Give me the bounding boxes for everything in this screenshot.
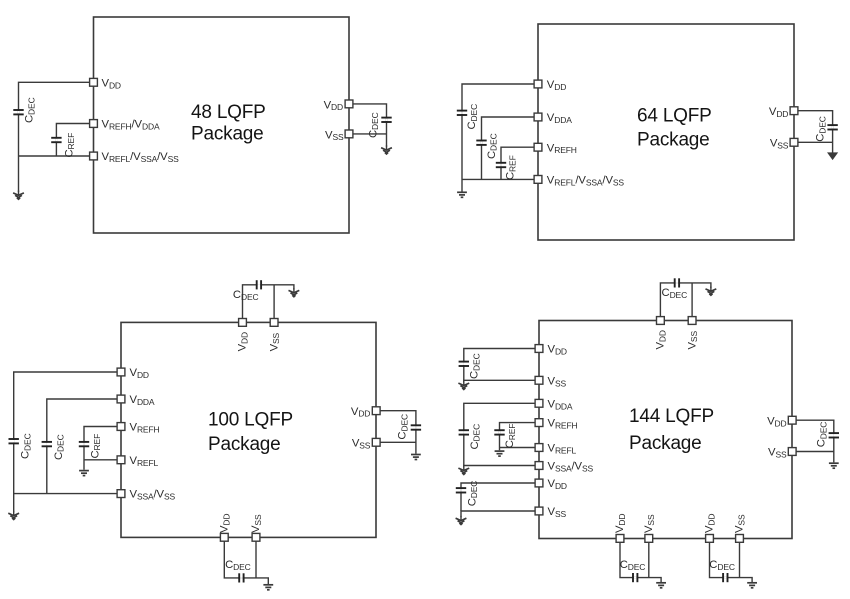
pin VDD a (144) <box>535 345 543 353</box>
wire top VDD to CDEC (144) <box>660 283 711 321</box>
pin VSSA/VSS (144) <box>535 462 543 470</box>
capacitor CREF (100 VREFH) <box>79 434 102 459</box>
wire VDD2 to CDEC (144) <box>461 483 539 511</box>
wire bottom VSS2 drop (144) <box>739 538 741 577</box>
svg-text:CDEC: CDEC <box>233 289 259 302</box>
wire bottom VDD2 to CDEC (144) <box>710 538 753 582</box>
pin VSS right (100) <box>372 438 380 446</box>
ground (48 right) <box>381 145 392 154</box>
svg-text:Package: Package <box>629 433 702 454</box>
svg-text:CREF: CREF <box>504 424 517 449</box>
svg-text:CDEC: CDEC <box>662 287 688 300</box>
pin VSS bottom2 (144) <box>736 535 744 543</box>
package body 64 LQFP <box>538 24 794 240</box>
svg-text:144 LQFP: 144 LQFP <box>629 406 714 427</box>
capacitor CREF (48 left VREFH) <box>51 133 76 158</box>
capacitor CDEC (100 top) <box>233 280 261 302</box>
ground (144 right) <box>829 463 839 468</box>
svg-text:VSS: VSS <box>548 375 567 388</box>
pin VDD right (48) <box>345 100 353 108</box>
capacitor CDEC (100 VDD) <box>9 433 33 459</box>
wire VDD right to CDEC (100) <box>376 411 416 454</box>
svg-text:CDEC: CDEC <box>466 481 479 507</box>
wire VSS right (144) <box>792 451 834 453</box>
pin VSS b (144) <box>535 507 543 515</box>
svg-text:CDEC: CDEC <box>53 434 66 460</box>
svg-text:VDD: VDD <box>769 106 788 119</box>
wire VSSA bus (100) <box>14 493 121 495</box>
wire VREFH to CREF (64) <box>501 147 538 179</box>
capacitor CDEC (144 bottom1) <box>620 559 646 582</box>
svg-text:CDEC: CDEC <box>225 559 251 572</box>
svg-text:VSS: VSS <box>643 514 656 533</box>
svg-text:VDD: VDD <box>130 367 149 380</box>
svg-text:CDEC: CDEC <box>466 104 479 130</box>
wire bottom VSS1 drop (144) <box>648 538 650 577</box>
pin VDD bottom1 (144) <box>616 535 624 543</box>
svg-text:VSS: VSS <box>352 437 371 450</box>
wire VSS1 (144) <box>464 380 539 382</box>
pin VSSA/VSS (100) <box>117 490 125 498</box>
pin VREFL/VSSA/VSS (64) <box>534 176 542 184</box>
ground (144 left2) <box>458 466 469 475</box>
pin VDD bottom2 (144) <box>706 535 714 543</box>
pin VSS right (144) <box>788 448 796 456</box>
capacitor CDEC (64 VDDA) <box>476 133 498 159</box>
svg-text:VDD: VDD <box>102 77 121 90</box>
pin VDD top (144) <box>657 317 665 325</box>
pin VREFH/VDDA (48) <box>90 120 98 128</box>
wire VREFL bus (48) <box>19 155 94 157</box>
wire top VSS drop (144) <box>691 283 693 321</box>
svg-text:VSS: VSS <box>325 129 344 142</box>
wire VREFH to CREF (100) <box>84 427 121 470</box>
ground (64 right) <box>828 153 837 159</box>
ground (100 left) <box>8 511 19 520</box>
svg-text:VREFL/VSSA/VSS: VREFL/VSSA/VSS <box>102 151 180 164</box>
ground (144 left1) <box>458 381 469 390</box>
title 100 LQFP <box>208 409 293 455</box>
svg-text:64 LQFP: 64 LQFP <box>637 105 712 126</box>
svg-text:CDEC: CDEC <box>469 424 482 450</box>
capacitor CDEC (48 left VDD) <box>13 97 36 123</box>
svg-text:48 LQFP: 48 LQFP <box>191 102 266 123</box>
pin VREFH (64) <box>534 143 542 151</box>
wire VDD right to CDEC (144) <box>792 420 834 462</box>
wire bottom VDD to CDEC (100) <box>224 537 268 584</box>
ground (144 CREF) <box>495 451 505 456</box>
svg-text:VSS: VSS <box>770 138 789 151</box>
svg-text:VDD: VDD <box>655 330 668 349</box>
pin VSS right (48) <box>345 130 353 138</box>
pin VDD right (144) <box>788 416 796 424</box>
title 48 LQFP <box>191 102 266 145</box>
wire VSSA bus (144) <box>464 466 539 468</box>
svg-text:CDEC: CDEC <box>486 133 499 159</box>
capacitor CDEC (144 g1) <box>459 353 482 379</box>
svg-text:VDD: VDD <box>548 344 567 357</box>
ground (100 CREF) <box>79 471 89 476</box>
wire VDDA to CDEC (144) <box>464 403 539 465</box>
wire VREFL (144) <box>500 447 540 449</box>
svg-text:VREFH: VREFH <box>547 142 577 155</box>
pin VSS right (64) <box>790 138 798 146</box>
pin VDD bottom (100) <box>220 533 228 541</box>
wire VSS right (48) <box>349 133 387 135</box>
svg-text:VDDA: VDDA <box>548 398 573 411</box>
pin VDD right (64) <box>790 107 798 115</box>
ground (144 left3) <box>456 516 467 525</box>
svg-text:VSS: VSS <box>250 514 263 533</box>
svg-text:VREFL: VREFL <box>548 443 577 456</box>
svg-text:VDD: VDD <box>767 415 786 428</box>
wire VDD right to CDEC (64) <box>794 111 833 153</box>
svg-text:CDEC: CDEC <box>620 559 646 572</box>
svg-text:CDEC: CDEC <box>815 116 828 142</box>
wire VSS right (64) <box>794 141 833 143</box>
wire VDDA to CDEC2 (100) <box>47 399 121 494</box>
ground (144 top) <box>706 287 717 296</box>
svg-text:100 LQFP: 100 LQFP <box>208 409 293 430</box>
svg-text:CDEC: CDEC <box>469 353 482 379</box>
pin VDDA (144) <box>535 399 543 407</box>
svg-text:CREF: CREF <box>505 155 518 180</box>
wire VDD right to CDEC (48) <box>349 104 387 147</box>
svg-text:VDD: VDD <box>324 99 343 112</box>
wire VDD to CDEC1 (100) <box>14 372 121 512</box>
pin VDD top (100) <box>239 319 247 327</box>
wire VDD to CDEC1 (64) <box>462 84 538 192</box>
svg-text:CDEC: CDEC <box>397 414 410 440</box>
svg-text:Package: Package <box>637 129 710 150</box>
wire VREFH to CREF (144) <box>500 423 540 451</box>
svg-text:VDD: VDD <box>704 514 717 533</box>
pin VSS top (144) <box>688 317 696 325</box>
capacitor CDEC (48 right) <box>367 112 391 138</box>
capacitor CDEC (64 VDD) <box>457 104 479 130</box>
capacitor CDEC (100 bottom) <box>225 559 251 582</box>
pin VREFH (100) <box>117 423 125 431</box>
pin VDD b (144) <box>535 479 543 487</box>
capacitor CDEC (144 g3) <box>456 481 479 507</box>
wire VSS right (100) <box>376 441 416 443</box>
pin VSS bottom1 (144) <box>645 535 653 543</box>
svg-text:CREF: CREF <box>63 133 76 158</box>
title 64 LQFP <box>637 105 712 150</box>
wire VREFL (100) <box>84 459 121 461</box>
svg-text:VSS: VSS <box>686 331 699 350</box>
svg-text:CDEC: CDEC <box>816 422 829 448</box>
package body 48 LQFP <box>94 17 350 233</box>
wire VSS2 (144) <box>461 511 539 517</box>
pin VREFL (100) <box>117 456 125 464</box>
svg-text:Package: Package <box>191 124 264 145</box>
svg-text:VDD: VDD <box>614 514 627 533</box>
ground (144 bottom1) <box>656 583 666 588</box>
svg-text:VDD: VDD <box>548 478 567 491</box>
svg-text:CDEC: CDEC <box>24 97 37 123</box>
svg-text:Package: Package <box>208 434 281 455</box>
wire bottom VDD1 to CDEC (144) <box>620 538 661 582</box>
wire VDDA to CDEC2 (64) <box>482 117 539 179</box>
svg-text:VDD: VDD <box>237 332 250 351</box>
capacitor CDEC (100 right) <box>397 414 421 440</box>
pin VREFL/VSSA/VSS (48) <box>90 152 98 160</box>
ground (48 left) <box>13 191 24 200</box>
svg-text:VSS: VSS <box>768 447 787 460</box>
svg-text:CDEC: CDEC <box>709 559 735 572</box>
svg-text:VREFH: VREFH <box>548 418 578 431</box>
pin VREFL (144) <box>535 444 543 452</box>
wire VDD1 to CDEC (144) <box>464 349 539 381</box>
svg-text:VREFH/VDDA: VREFH/VDDA <box>102 119 160 132</box>
capacitor CDEC (144 right) <box>816 422 840 448</box>
svg-text:VDD: VDD <box>219 514 232 533</box>
svg-text:VREFL/VSSA/VSS: VREFL/VSSA/VSS <box>547 175 625 188</box>
pin VSS top (100) <box>270 319 278 327</box>
capacitor CREF (64 VREFH) <box>496 155 518 180</box>
svg-text:VDD: VDD <box>351 406 370 419</box>
wire top VSS drop (100) <box>273 285 275 323</box>
pin VSS bottom (100) <box>252 533 260 541</box>
pin VDD left (64) <box>534 80 542 88</box>
package body 100 LQFP <box>121 322 376 537</box>
ground (100 top) <box>289 288 300 297</box>
svg-text:VDD: VDD <box>547 79 566 92</box>
capacitor CDEC (144 bottom2) <box>709 559 735 582</box>
svg-text:VSSA/VSS: VSSA/VSS <box>130 489 176 502</box>
wire top VDD to CDEC (100) <box>243 285 294 323</box>
wire VREFL bus (64) <box>462 178 538 180</box>
svg-text:VSS: VSS <box>268 332 281 351</box>
ground (64 left) <box>457 192 467 197</box>
wire VREFH to CREF (48) <box>56 124 93 157</box>
wire bottom VSS drop (100) <box>255 537 257 578</box>
svg-text:VDDA: VDDA <box>547 112 572 125</box>
pin VDD left (48) <box>90 78 98 86</box>
title 144 LQFP <box>629 406 714 454</box>
svg-text:VSS: VSS <box>734 514 747 533</box>
pin VDD left (100) <box>117 368 125 376</box>
svg-text:VREFL: VREFL <box>130 455 159 468</box>
svg-text:CREF: CREF <box>89 434 102 459</box>
svg-text:VSSA/VSS: VSSA/VSS <box>548 461 594 474</box>
capacitor CDEC (100 VDDA) <box>42 434 66 460</box>
pin VDDA (64) <box>534 113 542 121</box>
svg-text:VDDA: VDDA <box>130 394 155 407</box>
svg-text:VREFH: VREFH <box>130 422 160 435</box>
pin VREFH (144) <box>535 419 543 427</box>
pin VDDA (100) <box>117 395 125 403</box>
capacitor CREF (144 CREF) <box>494 424 517 449</box>
ground (100 right) <box>411 455 421 460</box>
capacitor CDEC (144 g2) <box>459 424 482 450</box>
wire VDD left to CDEC (48) <box>19 82 94 192</box>
pin VDD right (100) <box>372 407 380 415</box>
svg-text:VSS: VSS <box>548 506 567 519</box>
svg-text:CDEC: CDEC <box>20 433 33 459</box>
svg-text:CDEC: CDEC <box>367 112 380 138</box>
package body 144 LQFP <box>539 321 792 539</box>
pin VSS a (144) <box>535 376 543 384</box>
ground (144 bottom2) <box>747 583 757 588</box>
ground (100 bottom) <box>263 585 273 590</box>
capacitor CDEC (64 right) <box>815 116 838 142</box>
capacitor CDEC (144 top) <box>662 278 688 300</box>
